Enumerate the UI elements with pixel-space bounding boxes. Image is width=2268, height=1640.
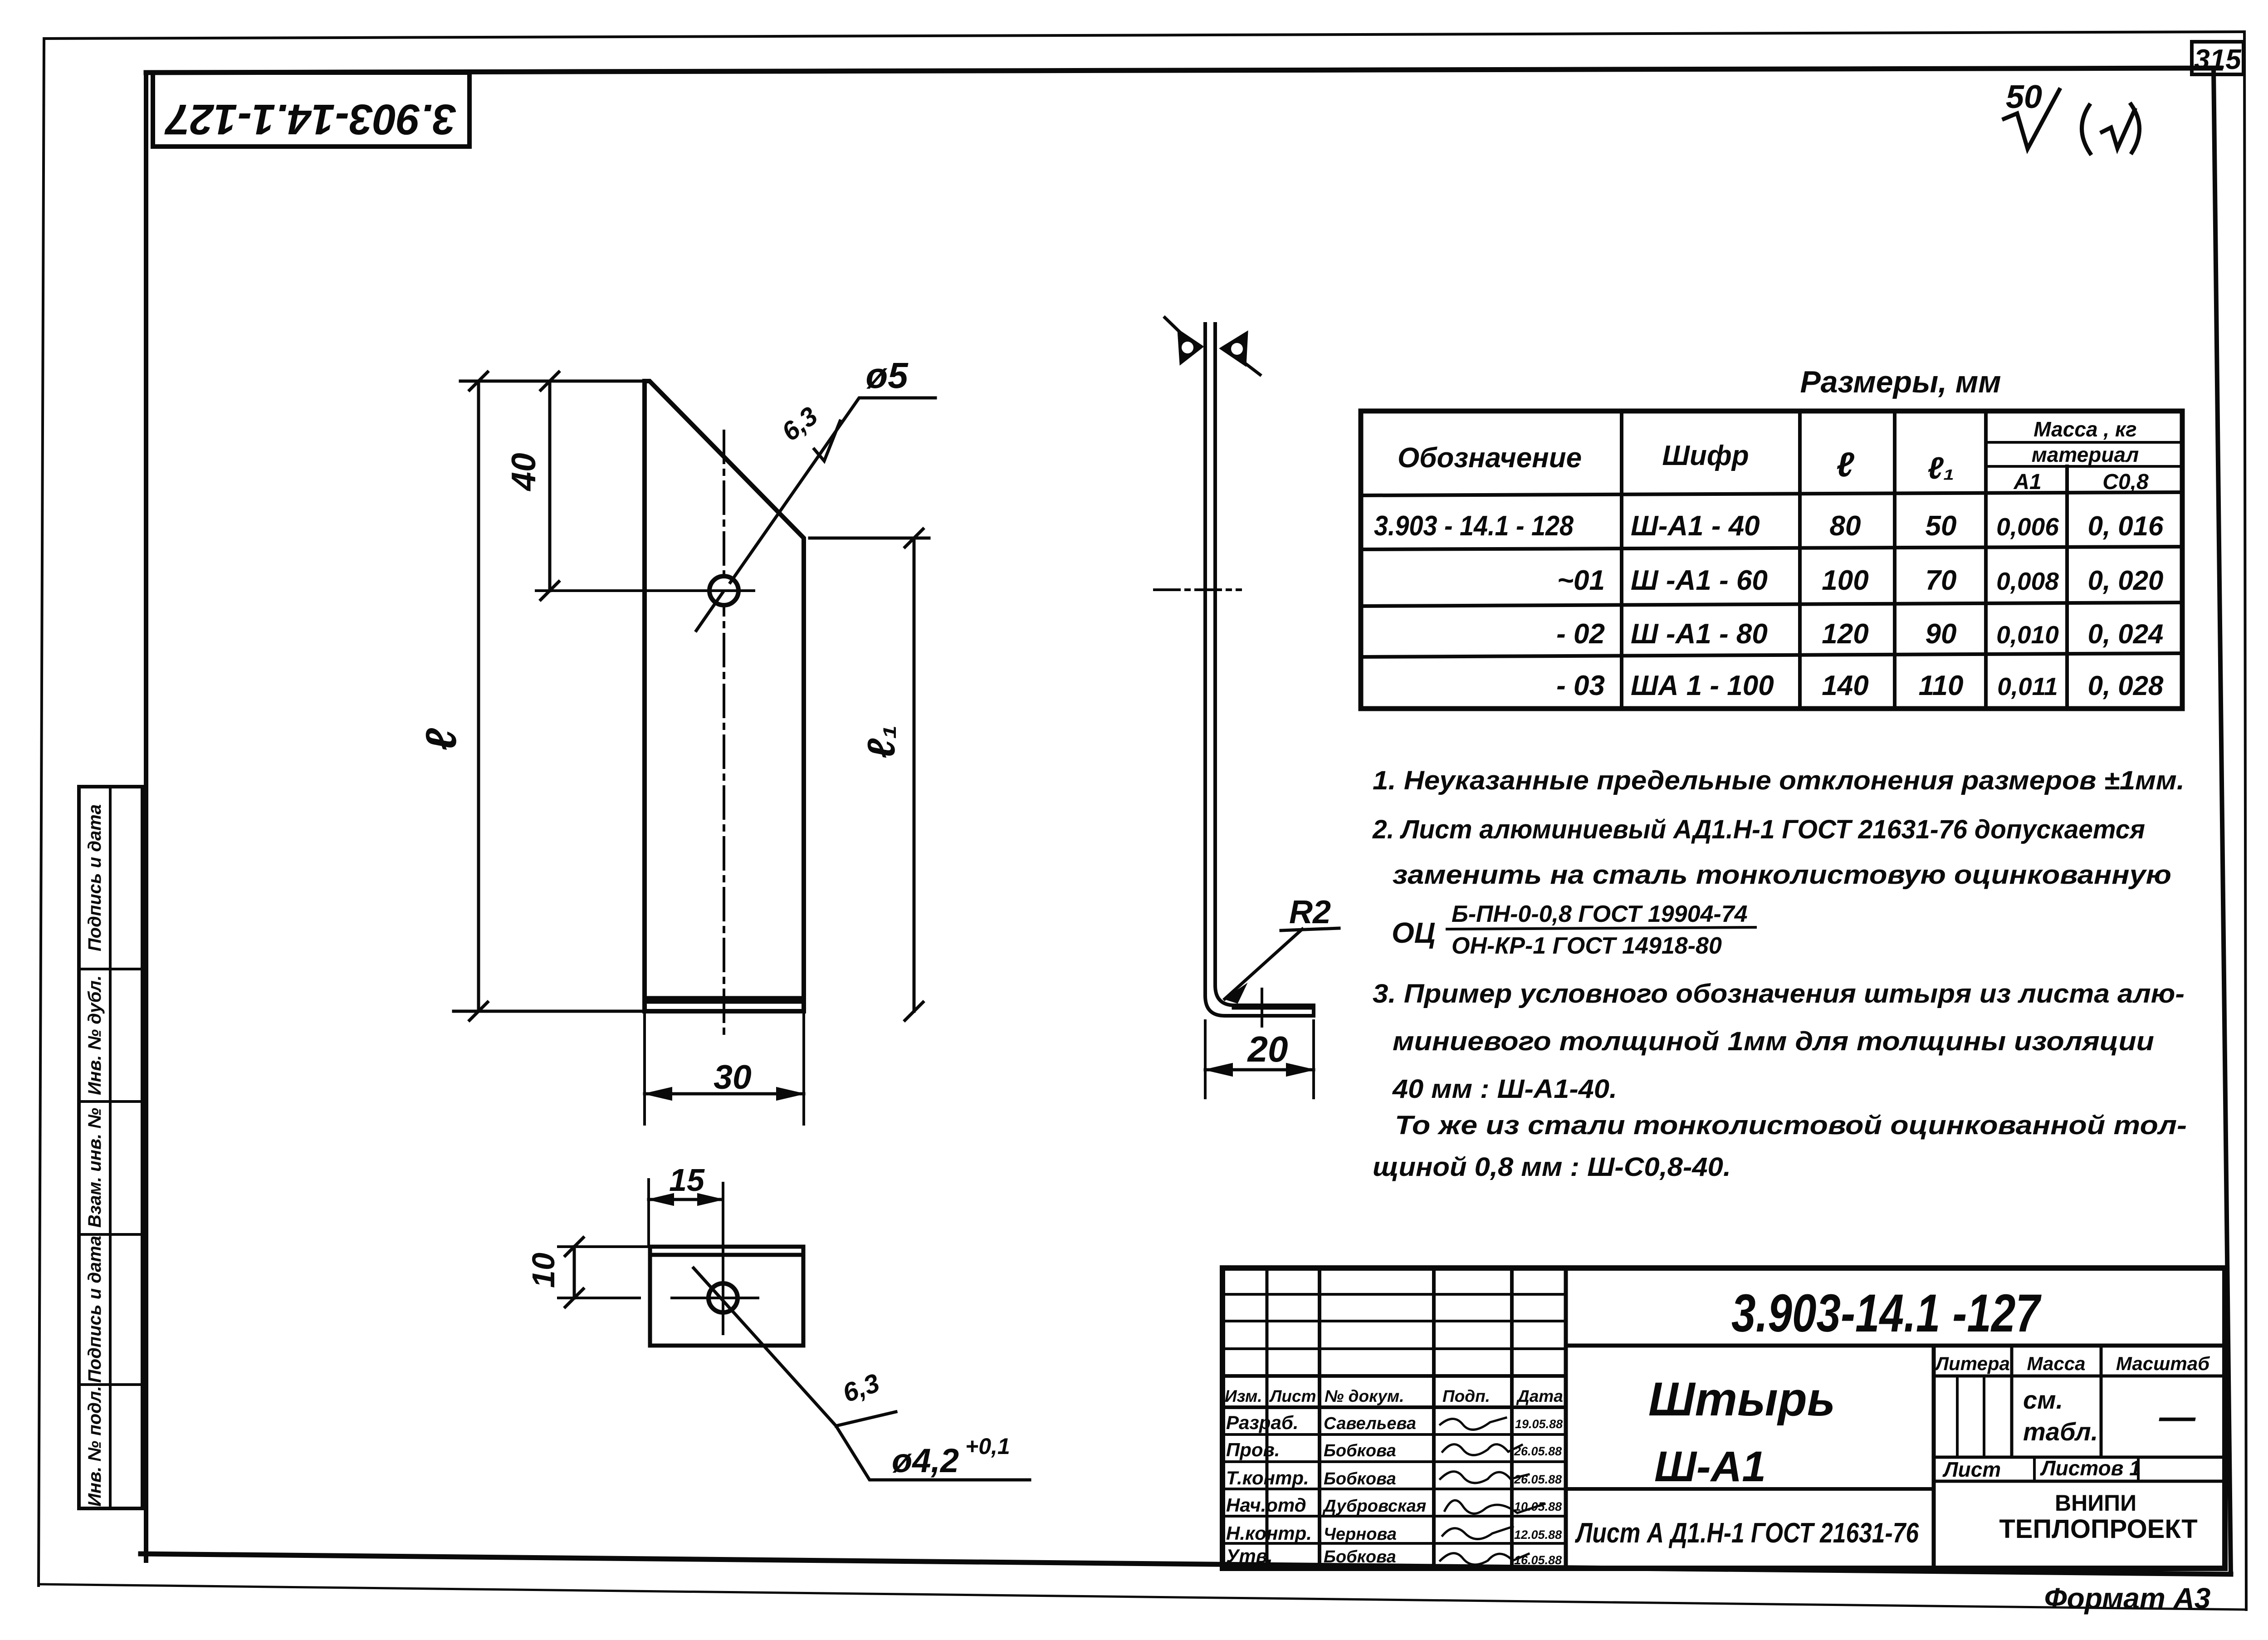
svg-text:заменить на сталь тонколист: заменить на сталь тонколистовую оцинкова… [1393,860,2171,890]
part name Shtyr [1648,1373,1835,1491]
table grid [1361,411,2182,709]
svg-text:Размеры, мм: Размеры, мм [1800,365,2001,399]
svg-text:0, 028: 0, 028 [2088,671,2164,701]
title block grid left part [1222,1268,1566,1568]
sharpened tip symbols side view [1165,318,1260,375]
svg-text:Бобкова: Бобкова [1324,1469,1396,1488]
svg-text:Б-ПН-0-0,8 ГОСТ 19904-74: Б-ПН-0-0,8 ГОСТ 19904-74 [1452,901,1748,927]
svg-text:26.05.88: 26.05.88 [1514,1473,1562,1486]
svg-text:табл.: табл. [2023,1417,2098,1446]
svg-text:40 мм : Ш-А1-40.: 40 мм : Ш-А1-40. [1392,1074,1617,1104]
rectangle outline bottom view [650,1247,803,1346]
svg-text:1. Неуказанные предельные от: 1. Неуказанные предельные отклонения раз… [1373,766,2185,795]
svg-text:80: 80 [1830,510,1861,542]
list listov row [1942,1456,2141,1481]
svg-text:120: 120 [1822,618,1868,650]
svg-text:Листов 1: Листов 1 [2040,1456,2141,1480]
vertical centerline front view [723,431,725,1040]
svg-text:ø5: ø5 [865,355,909,396]
svg-text:0,006: 0,006 [1996,513,2059,541]
svg-text:50: 50 [2006,79,2042,115]
svg-text:Утв.: Утв. [1226,1545,1273,1567]
NOTES [1372,766,2187,1182]
document number in title block [1731,1283,2042,1343]
roughness mark in parentheses [2082,104,2139,153]
svg-text:Подп.: Подп. [1442,1387,1490,1405]
signature rows labels [1226,1412,1312,1567]
svg-text:ВНИПИ: ВНИПИ [2055,1490,2136,1516]
svg-text:ø4,2: ø4,2 [892,1442,959,1479]
svg-text:Инв. № подл.: Инв. № подл. [85,1386,105,1507]
litera massa masshtab headers [1934,1353,2210,1374]
roughness mark 50 with check [2004,90,2059,149]
svg-text:ША 1 - 100: ША 1 - 100 [1631,670,1774,701]
dimension 20 side view [1205,1021,1314,1098]
svg-text:90: 90 [1926,618,1957,650]
page number box 315 [2192,42,2244,74]
center tick on foot side view [1261,989,1263,1026]
svg-text:40: 40 [504,453,543,491]
svg-text:Штырь: Штырь [1648,1373,1835,1426]
dimension 30 front view [645,1011,804,1124]
sm tabl and dash [2023,1385,2196,1446]
signature rows dates [1514,1417,1563,1567]
hole front view [536,576,754,605]
svg-text:30: 30 [714,1058,751,1096]
svg-text:Шифр: Шифр [1662,440,1749,471]
svg-text:16.05.88: 16.05.88 [1514,1553,1562,1567]
title block outer border [1222,1268,2225,1568]
table header row izm list [1225,1387,1563,1405]
svg-text:0, 024: 0, 024 [2088,619,2164,649]
svg-text:Формат А3: Формат А3 [2044,1582,2211,1615]
svg-text:Т.контр.: Т.контр. [1226,1467,1309,1488]
svg-text:щиной 0,8 мм : Ш-С0,8-40.: щиной 0,8 мм : Ш-С0,8-40. [1373,1152,1731,1182]
svg-text:Савельева: Савельева [1324,1414,1416,1433]
svg-text:Обозначение: Обозначение [1398,442,1582,474]
part outline front view [645,381,804,1011]
svg-text:Нач.отд: Нач.отд [1226,1494,1306,1516]
leader R2 side view [1225,928,1339,1003]
svg-text:Чернова: Чернова [1324,1525,1397,1544]
format note [2044,1582,2211,1615]
company name [1999,1490,2197,1544]
svg-text:Пров.: Пров. [1226,1439,1280,1460]
left stamp strip [79,787,142,1508]
svg-text:Литера: Литера [1934,1353,2010,1374]
svg-text:Подпись и дата: Подпись и дата [85,804,105,951]
svg-text:ℓ: ℓ [1836,445,1854,484]
dimension 40 front view [541,372,559,600]
svg-text:315: 315 [2194,44,2242,75]
svg-text:2. Лист алюминиевый АД1.Н-1 ГО: 2. Лист алюминиевый АД1.Н-1 ГОСТ 21631-7… [1372,815,2145,844]
svg-text:~01: ~01 [1557,565,1605,596]
svg-text:R2: R2 [1289,894,1331,930]
svg-text:материал: материал [2032,443,2139,466]
svg-text:—: — [2159,1396,2196,1437]
svg-text:19.05.88: 19.05.88 [1515,1417,1563,1431]
svg-text:3. Пример условного обозначе: 3. Пример условного обозначения штыря из… [1373,979,2185,1008]
svg-text:миниевого толщиной 1мм для: миниевого толщиной 1мм для толщины изоля… [1393,1027,2154,1056]
svg-text:20: 20 [1247,1029,1288,1069]
svg-text:Лист: Лист [1269,1387,1316,1405]
svg-text:0,008: 0,008 [1996,567,2059,595]
signatures squiggles [1440,1418,1545,1565]
fraction line in note 2 [1447,927,1755,929]
svg-text:100: 100 [1822,565,1868,596]
svg-text:+0,1: +0,1 [965,1434,1010,1459]
centerline side view [1154,588,1241,591]
svg-text:А1: А1 [2013,470,2041,494]
svg-text:0,010: 0,010 [1996,621,2059,649]
svg-text:0, 016: 0, 016 [2088,511,2164,541]
top-left document number text (rotated 180) [164,95,456,143]
svg-text:12.05.88: 12.05.88 [1514,1528,1562,1542]
svg-text:Подпись и дата: Подпись и дата [85,1236,105,1383]
svg-text:ℓ₁: ℓ₁ [860,725,903,759]
svg-text:Изм.: Изм. [1225,1387,1262,1405]
svg-text:50: 50 [1926,510,1957,542]
hole bottom view [672,1183,758,1334]
svg-text:3.903 - 14.1 - 128: 3.903 - 14.1 - 128 [1374,510,1574,542]
svg-text:Бобкова: Бобкова [1324,1441,1396,1460]
svg-text:см.: см. [2023,1385,2063,1414]
svg-text:Масштаб: Масштаб [2116,1353,2210,1374]
svg-text:15: 15 [669,1162,705,1198]
page number text 315 [2194,44,2242,75]
left strip labels [85,804,105,1507]
roughness 6,3 at hole leader [814,421,840,461]
dimension l (length) front view [454,372,649,1020]
svg-text:Ш-А1 - 40: Ш-А1 - 40 [1631,510,1760,542]
svg-text:0,011: 0,011 [1997,672,2058,700]
svg-text:26.05.88: 26.05.88 [1514,1444,1562,1458]
svg-text:3.903-14.1-127: 3.903-14.1-127 [164,95,456,143]
svg-text:То же из стали тонколистовой: То же из стали тонколистовой оцинкованно… [1395,1111,2187,1140]
svg-text:Инв. № дубл.: Инв. № дубл. [85,975,105,1095]
table header texts [1398,417,2149,494]
svg-text:С0,8: С0,8 [2102,470,2149,494]
svg-text:Лист А Д1.Н-1 ГОСТ 21631-76: Лист А Д1.Н-1 ГОСТ 21631-76 [1575,1518,1919,1549]
title block grid right part [1566,1346,2225,1568]
leader diameter 5 front view [696,398,935,631]
table data rows [1374,510,2164,701]
svg-text:Масса , кг: Масса , кг [2033,417,2136,441]
dimension 10 bottom view [558,1238,650,1307]
svg-text:110: 110 [1919,670,1964,701]
signature rows names [1322,1414,1426,1567]
svg-text:Ш -А1 - 80: Ш -А1 - 80 [1631,618,1768,650]
svg-text:10.05.88: 10.05.88 [1514,1500,1562,1513]
svg-text:ТЕПЛОПРОЕКТ: ТЕПЛОПРОЕКТ [1999,1514,2197,1544]
leader diameter 4,2 bottom view [694,1268,1030,1480]
profile outline side view [1205,324,1314,1016]
material line [1575,1518,1919,1549]
svg-text:- 02: - 02 [1556,618,1605,650]
svg-text:ℓ₁: ℓ₁ [1927,451,1954,485]
svg-text:140: 140 [1822,670,1868,701]
svg-text:ℓ: ℓ [417,728,465,751]
svg-text:Разраб.: Разраб. [1226,1412,1299,1433]
dimension l1 front view [810,529,929,1020]
svg-text:Дата: Дата [1516,1387,1563,1405]
svg-text:70: 70 [1926,565,1957,596]
svg-text:Дубровская: Дубровская [1322,1497,1426,1516]
svg-text:- 03: - 03 [1556,670,1605,701]
svg-text:0, 020: 0, 020 [2088,565,2164,596]
svg-text:ОЦ: ОЦ [1392,916,1435,949]
svg-text:3.903-14.1 -127: 3.903-14.1 -127 [1731,1283,2042,1343]
svg-text:Н.контр.: Н.контр. [1226,1523,1312,1544]
svg-text:Взам. инв. №: Взам. инв. № [85,1108,105,1228]
svg-text:Ш-А1: Ш-А1 [1654,1443,1766,1491]
table title [1800,365,2001,399]
svg-text:Лист: Лист [1942,1458,2001,1481]
dimension 15 bottom view [649,1180,723,1247]
svg-text:№ докум.: № докум. [1325,1387,1404,1405]
svg-text:Ш -А1 - 60: Ш -А1 - 60 [1631,565,1768,596]
top-left document number box [153,73,469,147]
svg-text:Бобкова: Бобкова [1324,1547,1396,1567]
svg-text:Масса: Масса [2027,1353,2086,1374]
svg-text:10: 10 [526,1253,561,1288]
svg-text:ОН-КР-1 ГОСТ 14918-80: ОН-КР-1 ГОСТ 14918-80 [1452,933,1722,959]
